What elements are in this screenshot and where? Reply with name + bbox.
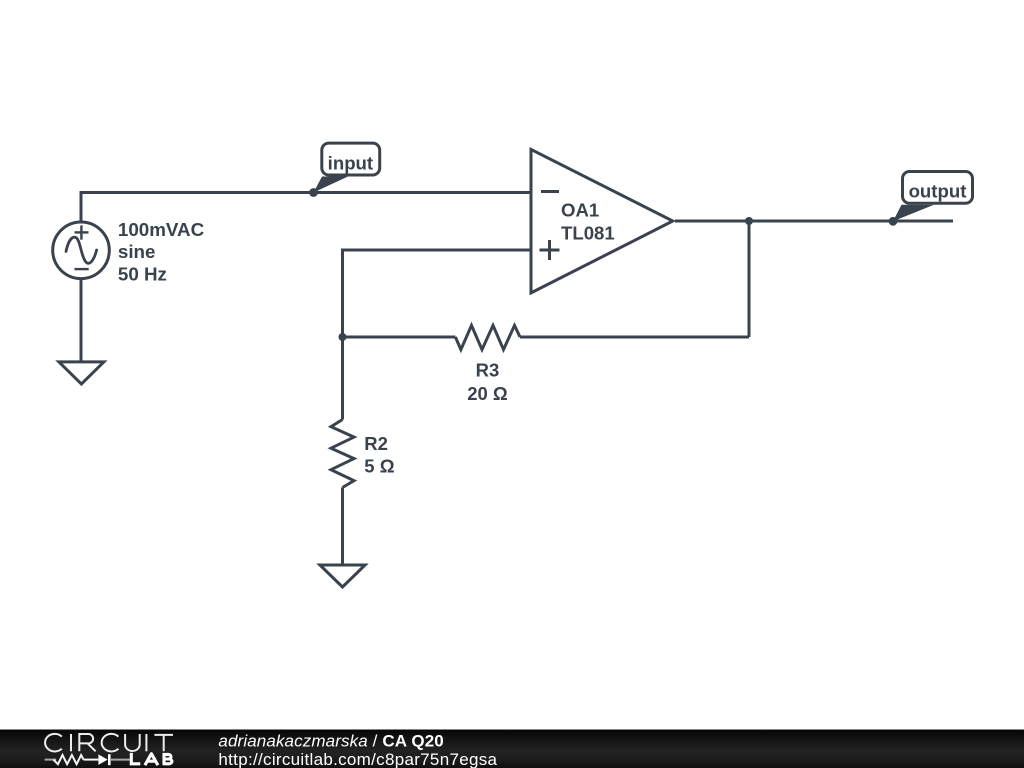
svg-text:100mVAC: 100mVAC [118,219,205,240]
svg-text:http://circuitlab.com/c8par75n: http://circuitlab.com/c8par75n7egsa [218,750,497,768]
logo wire to diode [84,759,99,761]
input flag box [322,143,380,175]
resistor R3 [455,325,520,349]
V1 minus sign [75,268,89,270]
node input dot [309,188,318,197]
svg-text:input: input [328,153,373,174]
svg-text:50 Hz: 50 Hz [118,264,167,285]
svg-text:20 Ω: 20 Ω [467,383,508,404]
resistor R2 label [364,433,394,476]
resistor R3 label [467,360,508,404]
logo resistor-diode glyph [45,759,130,761]
wire R2 top lead [341,337,344,420]
svg-text:OA1: OA1 [561,200,599,221]
ground at V1 [59,362,104,384]
output flag box [903,172,973,204]
wire R2 bottom lead [341,488,344,566]
svg-text:R2: R2 [364,433,388,454]
wire feedback vertical [748,221,751,337]
ground at R2 [320,565,365,587]
svg-text:adrianakaczmarska / CA Q20: adrianakaczmarska / CA Q20 [218,732,443,751]
wire op-amp plus input [343,250,532,337]
node output flag dot [889,217,898,226]
node feedback junction dot [339,333,347,341]
logo zigzag [53,755,83,764]
op-amp OA1 label [561,200,615,244]
logo CIRCUIT lettering [45,734,173,752]
V1 value label [118,219,205,285]
wire V1 bottom lead [80,280,83,362]
wire R3 left lead [343,336,456,339]
op-amp plus pin symbol [540,240,560,260]
V1 sine wave [66,237,97,263]
logo LAB lettering [130,753,172,765]
op-amp OA1 [531,149,673,293]
V1 plus sign [75,225,89,239]
logo diode bar [108,754,111,765]
node output junction dot [745,217,753,225]
svg-text:5 Ω: 5 Ω [364,455,394,476]
wire R3 right lead [520,336,749,339]
footer bar [0,730,1024,768]
logo diode triangle [98,754,107,765]
output flag pointer [893,205,934,222]
input flag pointer [314,177,349,193]
op-amp minus pin symbol [541,190,559,193]
wire input rail [81,193,531,222]
wire output rail [675,220,953,223]
svg-text:sine: sine [118,241,156,262]
voltage source V1 circle [53,222,110,279]
svg-text:R3: R3 [476,360,500,381]
resistor R2 [331,420,354,488]
svg-text:TL081: TL081 [561,223,615,244]
svg-text:output: output [909,180,967,201]
